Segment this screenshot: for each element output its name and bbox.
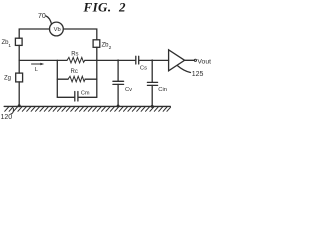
wire main horizontal left xyxy=(19,59,57,61)
leader line 70 xyxy=(46,16,52,24)
svg-text:Cv: Cv xyxy=(125,87,132,93)
svg-text:2: 2 xyxy=(118,0,126,14)
wire Zg to ground xyxy=(18,82,20,106)
svg-text:Vb: Vb xyxy=(54,27,61,33)
wire Zb2 down through node to Cm xyxy=(96,47,98,97)
svg-text:Cin: Cin xyxy=(158,87,167,93)
current arrow L xyxy=(32,63,45,66)
junction dot Cin ground xyxy=(151,105,154,108)
junction dot ground left xyxy=(18,104,21,107)
svg-text:2: 2 xyxy=(109,45,112,51)
capacitor Cin xyxy=(147,60,157,106)
op-amp U1 xyxy=(169,50,185,71)
svg-text:FIG.: FIG. xyxy=(83,0,112,14)
svg-text:125: 125 xyxy=(192,71,204,78)
resistor Rs xyxy=(57,57,97,63)
title FIG. 2 xyxy=(83,0,127,14)
node junction Cv xyxy=(117,59,119,61)
svg-text:Rs: Rs xyxy=(71,52,78,58)
capacitor Cs xyxy=(136,56,139,64)
svg-text:120: 120 xyxy=(1,114,13,120)
wire amp output xyxy=(185,59,195,61)
wire top rail right xyxy=(63,29,96,40)
impedance Zb2 xyxy=(93,40,100,48)
svg-text:Cs: Cs xyxy=(140,66,147,72)
svg-text:70: 70 xyxy=(38,13,46,20)
svg-text:Vout: Vout xyxy=(197,59,211,66)
wire top rail left xyxy=(19,29,49,38)
leader line 120 xyxy=(11,108,14,114)
capacitor Cm xyxy=(57,92,97,102)
svg-text:1: 1 xyxy=(8,43,11,49)
impedance Zg xyxy=(16,73,23,82)
svg-text:L: L xyxy=(35,67,39,73)
node junction Cin xyxy=(151,59,153,61)
junction dot Cv ground xyxy=(117,105,120,108)
svg-text:Cm: Cm xyxy=(81,91,90,97)
capacitor Cv xyxy=(113,60,124,106)
leader line 125 xyxy=(178,66,191,73)
wire Cs to amp xyxy=(139,59,168,61)
resistor Rc xyxy=(57,76,97,82)
wire main horizontal right xyxy=(97,59,136,61)
svg-text:Rc: Rc xyxy=(71,69,78,75)
wire node to Zg xyxy=(18,60,20,73)
svg-text:Zg: Zg xyxy=(4,76,11,82)
terminal circle Vout xyxy=(194,59,196,61)
impedance Zb1 xyxy=(15,38,22,45)
ground xyxy=(4,106,170,111)
voltage source Vb xyxy=(50,22,64,36)
wire Zb1 to node xyxy=(18,45,20,60)
wire network left vertical xyxy=(56,60,58,97)
